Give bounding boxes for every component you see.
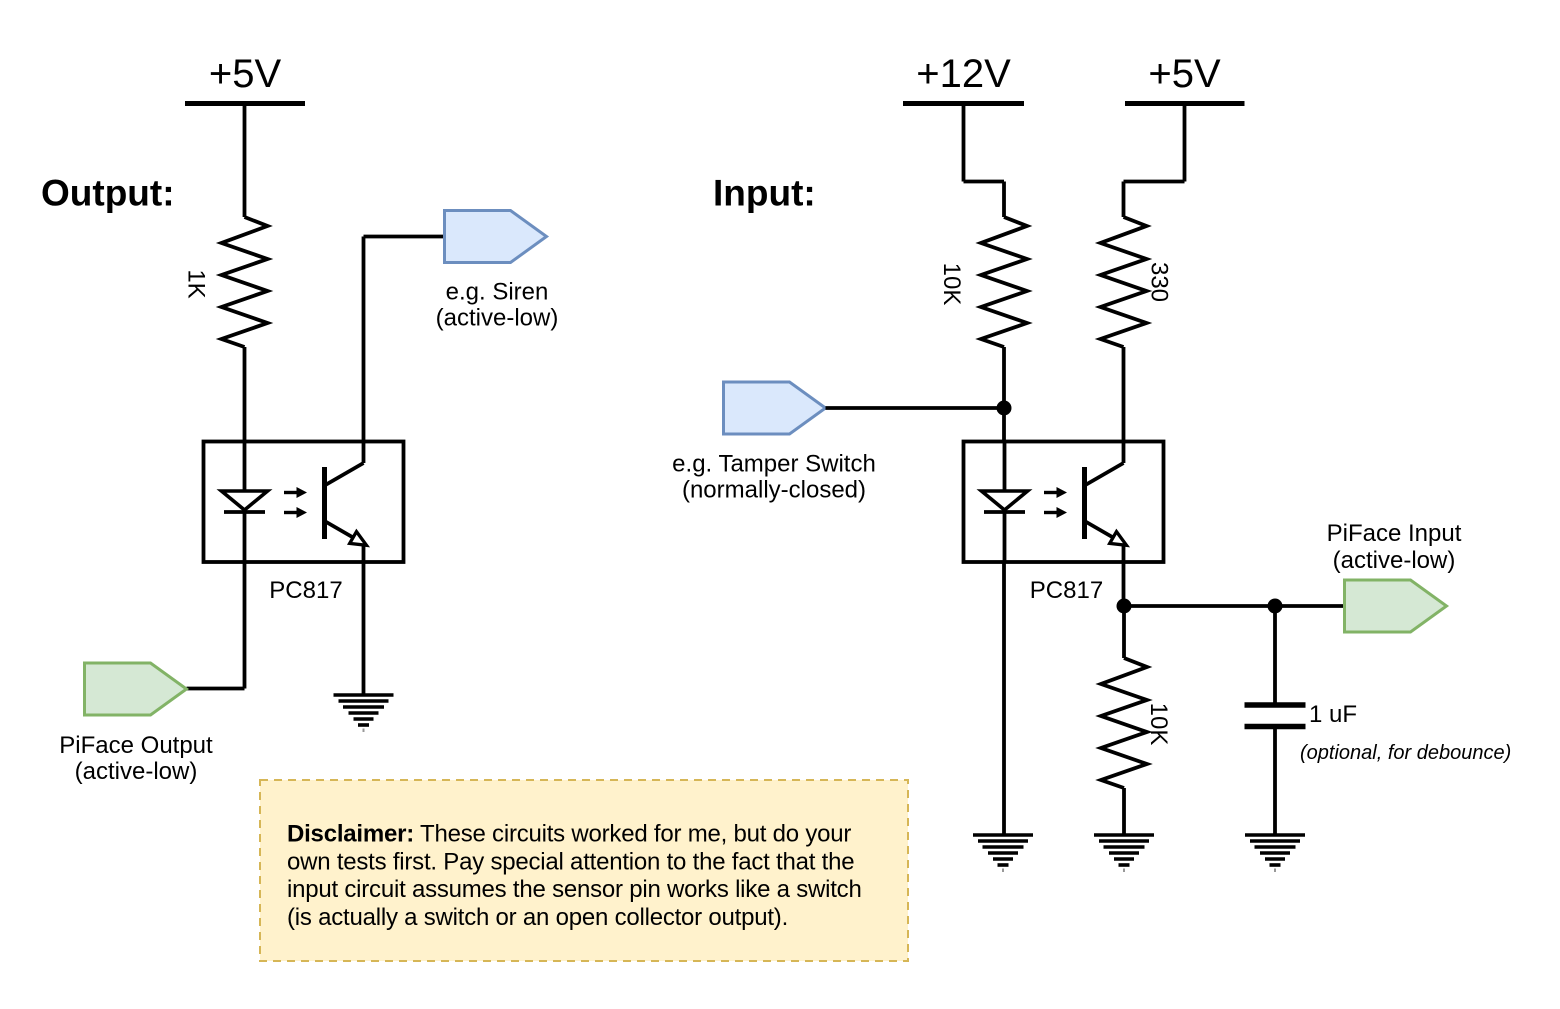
resistor R1 1K xyxy=(222,217,268,347)
svg-text:+5V: +5V xyxy=(1148,52,1221,96)
wire +5V jog left xyxy=(1124,180,1185,184)
wire +5V bar to resistor R1 xyxy=(243,104,247,218)
wire R4 to ground xyxy=(1122,788,1126,835)
wire R3 to U2 collector xyxy=(1122,347,1126,442)
svg-text:(active-low): (active-low) xyxy=(436,305,559,332)
wire node C to capacitor C1 xyxy=(1273,606,1277,703)
wire node A to U2 anode xyxy=(1002,408,1006,442)
svg-text:PiFace Output: PiFace Output xyxy=(59,732,213,759)
wire C1 to ground xyxy=(1273,729,1277,835)
svg-text:input circuit assumes the sens: input circuit assumes the sensor pin wor… xyxy=(287,876,862,903)
wire U2 cathode to ground xyxy=(1002,562,1006,835)
node B junction dot xyxy=(1117,599,1132,614)
power +5V rail bar (left) xyxy=(185,101,305,106)
optocoupler U2 PC817 xyxy=(964,442,1164,563)
node C junction dot xyxy=(1268,599,1283,614)
flag e.g. Siren (blue) xyxy=(445,211,547,263)
svg-text:1 uF: 1 uF xyxy=(1309,701,1357,728)
flag PiFace Output (green) xyxy=(85,663,187,715)
wire node B to resistor R4 xyxy=(1122,606,1126,658)
capacitor C1 plate bottom xyxy=(1245,724,1306,730)
svg-text:10K: 10K xyxy=(938,263,965,306)
wire cathode to PiFace Output flag xyxy=(187,687,245,691)
ground (C1) xyxy=(1245,835,1305,872)
disclaimer note box xyxy=(260,780,908,961)
svg-text:(active-low): (active-low) xyxy=(75,758,198,785)
svg-text:(active-low): (active-low) xyxy=(1333,547,1456,574)
wire U1 collector up xyxy=(362,237,366,443)
wire U2 emitter to node B xyxy=(1122,562,1126,606)
svg-text:+5V: +5V xyxy=(209,52,282,96)
svg-text:330: 330 xyxy=(1146,262,1173,302)
ground (R4) xyxy=(1094,835,1154,872)
resistor R3 330 xyxy=(1101,217,1147,347)
svg-text:PiFace Input: PiFace Input xyxy=(1327,520,1462,547)
power +12V rail bar xyxy=(903,101,1024,106)
ground (U2 cathode) xyxy=(973,835,1033,872)
svg-text:own tests first. Pay special a: own tests first. Pay special attention t… xyxy=(287,848,854,875)
svg-text:e.g. Siren: e.g. Siren xyxy=(446,279,549,306)
svg-text:Input:: Input: xyxy=(713,173,816,214)
svg-text:PC817: PC817 xyxy=(1030,577,1103,604)
svg-text:10K: 10K xyxy=(1145,703,1172,746)
flag e.g. Tamper Switch (blue) xyxy=(724,382,826,434)
svg-text:Disclaimer: These circuits wor: Disclaimer: These circuits worked for me… xyxy=(287,821,851,848)
svg-text:PC817: PC817 xyxy=(269,577,342,604)
svg-text:Output:: Output: xyxy=(41,173,175,214)
optocoupler U1 PC817 xyxy=(204,442,404,563)
wire +12V bar down xyxy=(962,104,966,182)
wire tamper flag to node A xyxy=(826,406,1005,410)
svg-text:+12V: +12V xyxy=(916,52,1011,96)
ground (U1 emitter) xyxy=(334,695,394,732)
wire node B to node C and flag xyxy=(1124,604,1345,608)
resistor R2 10K xyxy=(981,217,1027,347)
wire R1 to optocoupler U1 anode xyxy=(243,347,247,442)
power +5V rail bar (right) xyxy=(1125,101,1245,106)
wire jog to resistor R2 xyxy=(1002,182,1006,218)
wire U1 cathode down xyxy=(243,562,247,689)
wire +5V bar down xyxy=(1183,104,1187,182)
resistor R4 10K xyxy=(1101,658,1147,788)
svg-text:1K: 1K xyxy=(183,269,210,298)
wire jog to resistor R3 xyxy=(1122,182,1126,218)
flag PiFace Input (green) xyxy=(1345,580,1447,632)
svg-text:(is actually a switch or an op: (is actually a switch or an open collect… xyxy=(287,904,788,931)
wire R2 to node A xyxy=(1002,347,1006,408)
wire collector to siren flag xyxy=(364,235,445,239)
capacitor C1 plate top xyxy=(1245,702,1306,708)
wire +12V jog right xyxy=(964,180,1005,184)
svg-text:(optional, for debounce): (optional, for debounce) xyxy=(1300,742,1511,764)
node A junction dot xyxy=(997,401,1012,416)
wire U1 emitter to ground xyxy=(362,562,366,695)
svg-text:(normally-closed): (normally-closed) xyxy=(682,477,866,504)
svg-text:e.g. Tamper Switch: e.g. Tamper Switch xyxy=(672,451,876,478)
